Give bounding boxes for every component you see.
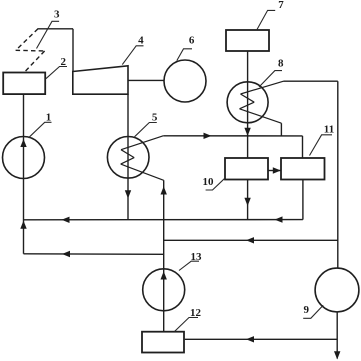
svg-text:6: 6	[189, 35, 195, 47]
svg-text:5: 5	[152, 112, 158, 124]
heat exchanger circle 8	[227, 82, 268, 123]
coil of HX5: zigzag 2	[121, 158, 135, 165]
svg-text:9: 9	[304, 304, 310, 316]
svg-text:2: 2	[60, 56, 66, 68]
arrow down HX8 to rect10	[244, 128, 250, 136]
wire: HX5 coil exit down through pump 13 to rect 12	[163, 180, 165, 331]
leader 12	[175, 318, 199, 332]
arrow up toward HX5 coil	[161, 186, 167, 194]
circle 9	[315, 268, 359, 312]
coil of HX5: exit diagonal	[121, 164, 164, 180]
arrow left on return line A (right)	[275, 216, 283, 222]
arrow up inside pump 1	[20, 139, 26, 147]
flue duct 3 (dashed) segment c	[24, 51, 44, 72]
wire: circle 9 down to outlet	[336, 312, 338, 359]
leader 13	[179, 261, 199, 270]
wire: right riser down to circle 9	[337, 81, 339, 268]
arrow up into pump 1 from return line	[20, 221, 26, 229]
wire: boiler 2 down through pump 1	[23, 94, 25, 254]
rect 12	[142, 332, 184, 353]
wire: turbine shaft to generator 6	[128, 79, 164, 81]
arrow down at outlet below circle 9	[334, 351, 340, 359]
leader 7	[257, 10, 275, 29]
leader 3	[37, 21, 60, 48]
svg-text:3: 3	[54, 9, 60, 21]
svg-text:8: 8	[278, 58, 284, 70]
rect 7	[226, 30, 269, 51]
coil of HX8: entry diagonal	[241, 81, 284, 94]
wire: down to turbine inlet	[72, 29, 74, 72]
coil of HX8: zigzag 2	[240, 102, 255, 109]
leader 6	[177, 49, 192, 61]
wire: drop into rect11	[302, 136, 304, 158]
rect 10	[225, 158, 268, 180]
arrow left on bottom line	[246, 336, 254, 342]
leader 9	[303, 305, 323, 318]
leader 4	[122, 46, 143, 65]
leader 1	[29, 122, 52, 138]
flue duct 3 (dashed) segment b	[16, 49, 45, 52]
wire: return line B	[24, 253, 164, 256]
rect 11	[281, 158, 325, 180]
boiler rect 2	[3, 73, 45, 95]
leader 8	[259, 71, 282, 87]
coil of HX8: zigzag 1	[241, 94, 255, 102]
arrow left on return line A (left)	[62, 217, 70, 223]
coil of HX8: exit diagonal	[240, 109, 282, 123]
wire: flue top horizontal	[38, 28, 74, 30]
wire: bottom line to rect 12	[185, 338, 338, 340]
turbine 4 (trapezoid)	[73, 66, 128, 94]
wire: rect7 down through HX8 to rect10	[247, 51, 249, 158]
flue duct 3 (dashed) segment a	[16, 29, 38, 50]
svg-text:1: 1	[46, 112, 52, 124]
leader 2	[46, 67, 67, 79]
leader 11	[310, 135, 333, 156]
svg-text:11: 11	[324, 124, 334, 136]
arrow right between rect10 and rect11	[273, 167, 281, 173]
generator circle 6	[164, 60, 206, 102]
svg-text:7: 7	[278, 0, 284, 11]
leader 5	[135, 123, 157, 137]
wire: cross line C	[164, 239, 338, 241]
pump circle 13	[143, 269, 185, 311]
wire: rect10 to rect11 link	[268, 170, 281, 172]
svg-text:12: 12	[190, 307, 202, 319]
arrow up inside pump 13	[161, 271, 167, 279]
wire: HX5 coil line to rect11 (horizontal)	[163, 135, 302, 137]
coil of HX5: entry diagonal	[121, 136, 163, 150]
wire: coil8 entry to right riser	[284, 80, 338, 82]
svg-text:4: 4	[138, 35, 144, 47]
svg-text:13: 13	[191, 251, 203, 263]
arrow down rect10 to return line	[244, 198, 250, 206]
wire: turbine exhaust down through HX5	[127, 94, 129, 220]
heat exchanger circle 5	[107, 137, 149, 179]
svg-text:10: 10	[203, 176, 215, 188]
wire: coil8 exit drop	[280, 123, 282, 136]
arrow right on HX5-to-11 line	[204, 133, 212, 139]
wire: rect11 down to return line	[302, 180, 304, 220]
leader 10	[206, 178, 226, 190]
arrow left on cross line C	[246, 237, 254, 243]
arrow down below HX5	[125, 190, 131, 198]
pump circle 1	[3, 137, 45, 179]
wire: rect10 down to return line	[247, 180, 249, 220]
coil of HX5: zigzag 1	[121, 150, 134, 158]
arrow left on return line B	[62, 251, 70, 257]
wire: return line A	[24, 219, 303, 221]
